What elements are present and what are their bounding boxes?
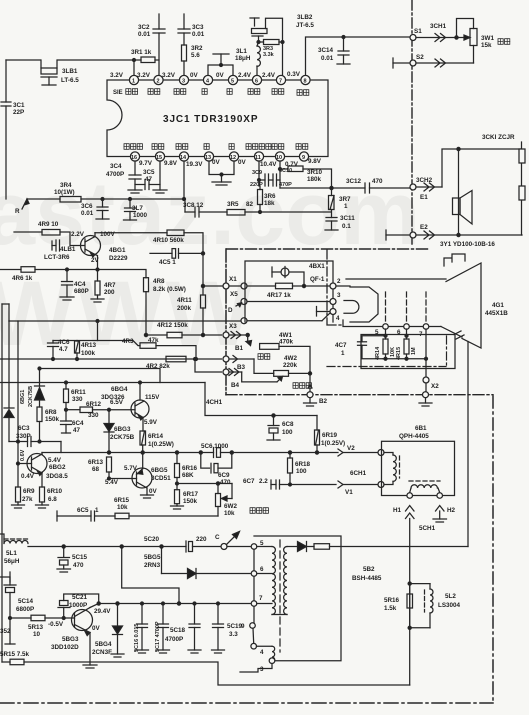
resonator 3LB2 xyxy=(250,14,314,75)
svg-text:LT-6.5: LT-6.5 xyxy=(61,77,79,84)
svg-text:0V: 0V xyxy=(92,625,101,632)
svg-text:0.01: 0.01 xyxy=(81,210,94,217)
svg-text:3.2V: 3.2V xyxy=(162,72,176,79)
connector S2 xyxy=(393,54,474,68)
svg-text:5R13: 5R13 xyxy=(28,624,44,631)
top pin voltage labels xyxy=(110,71,301,79)
svg-text:2CN3F: 2CN3F xyxy=(92,649,112,656)
svg-text:4R2 82k: 4R2 82k xyxy=(146,363,170,370)
svg-text:3C8 12: 3C8 12 xyxy=(183,202,204,209)
svg-text:4R9 10: 4R9 10 xyxy=(38,221,59,228)
node R input arrow xyxy=(15,199,29,215)
connector X2 xyxy=(423,329,439,392)
svg-text:5L1: 5L1 xyxy=(6,550,17,557)
IC pin 15 xyxy=(155,152,164,161)
wiper B4 to 4W2 xyxy=(242,372,283,382)
connector B1 xyxy=(223,345,254,363)
svg-text:10(1W): 10(1W) xyxy=(54,189,75,196)
svg-text:5BG5: 5BG5 xyxy=(144,554,161,561)
capacitor 3C2 xyxy=(138,14,165,75)
svg-text:7: 7 xyxy=(279,79,282,85)
bottom pin voltage labels xyxy=(139,158,322,168)
svg-text:QF-1: QF-1 xyxy=(310,276,325,283)
svg-text:B1: B1 xyxy=(235,345,244,352)
svg-text:BSH-4485: BSH-4485 xyxy=(352,575,382,582)
transformer 5B2 tap 6 xyxy=(251,549,272,576)
svg-text:7: 7 xyxy=(259,595,263,602)
svg-text:5.7V: 5.7V xyxy=(124,465,138,472)
svg-text:5.6: 5.6 xyxy=(191,52,200,59)
resonator 3LB1 xyxy=(41,60,79,85)
diode 5BG4 xyxy=(92,602,124,657)
inductor 5L2 xyxy=(408,584,460,630)
svg-text:68: 68 xyxy=(92,466,100,473)
svg-text:19.3V: 19.3V xyxy=(186,161,203,168)
svg-text:2V: 2V xyxy=(91,257,100,264)
svg-text:6R13: 6R13 xyxy=(88,459,104,466)
svg-text:3C2: 3C2 xyxy=(138,24,150,31)
svg-text:6R19: 6R19 xyxy=(322,432,338,439)
svg-text:18μH: 18μH xyxy=(235,55,251,62)
svg-text:9: 9 xyxy=(302,155,305,161)
IC pin 12 xyxy=(229,152,238,161)
resistor 4R13 xyxy=(75,341,97,361)
connector S1 xyxy=(410,23,456,42)
svg-text:0.7V: 0.7V xyxy=(285,161,299,168)
svg-text:1M: 1M xyxy=(411,347,417,355)
wire L1 bus (to X5) xyxy=(9,318,247,324)
connector E2 xyxy=(386,224,522,240)
resistor 4R3 xyxy=(98,337,198,361)
svg-text:4.7: 4.7 xyxy=(59,346,68,353)
IC pin 1 xyxy=(129,75,138,84)
breaker 4BX1 box xyxy=(245,261,333,322)
resistor 3R7 xyxy=(329,188,352,218)
resistor 4R17 xyxy=(247,278,341,299)
connector B2 ground xyxy=(304,385,328,407)
svg-text:H2: H2 xyxy=(447,507,456,514)
svg-text:LS3004: LS3004 xyxy=(438,602,461,609)
svg-text:0.6V: 0.6V xyxy=(20,449,26,461)
resistor 6R18 xyxy=(288,453,311,487)
svg-text:6BG2: 6BG2 xyxy=(49,464,66,471)
svg-text:6R11: 6R11 xyxy=(71,389,86,396)
svg-text:H1: H1 xyxy=(393,507,402,514)
svg-text:E1: E1 xyxy=(420,194,428,201)
transistor 4BG1 xyxy=(71,231,128,270)
svg-text:3Y1 YD100-10B-16: 3Y1 YD100-10B-16 xyxy=(440,241,495,248)
svg-text:V2: V2 xyxy=(347,445,355,452)
svg-text:1000: 1000 xyxy=(133,212,148,219)
potentiometer 4W1 xyxy=(246,332,310,392)
svg-text:2RN3: 2RN3 xyxy=(144,562,161,569)
svg-text:6800P: 6800P xyxy=(16,606,34,613)
svg-text:D2229: D2229 xyxy=(109,255,128,262)
resistor 4R15 xyxy=(396,329,417,360)
resistor 6R14 xyxy=(140,431,174,453)
svg-text:115V: 115V xyxy=(145,394,160,401)
IC pin 8 xyxy=(301,75,310,84)
svg-text:3CD51: 3CD51 xyxy=(151,475,171,482)
svg-text:2: 2 xyxy=(337,278,341,285)
svg-text:220P: 220P xyxy=(250,182,263,188)
svg-text:4R8: 4R8 xyxy=(153,278,165,285)
capacitor 5C16 xyxy=(134,602,149,653)
svg-text:X1: X1 xyxy=(229,276,237,283)
svg-text:5BG4: 5BG4 xyxy=(95,641,112,648)
capacitor 3C3 xyxy=(178,14,205,45)
ground X2 on divider xyxy=(419,392,432,406)
svg-text:5C14: 5C14 xyxy=(18,598,34,605)
svg-text:E2: E2 xyxy=(420,224,428,231)
svg-text:3L1: 3L1 xyxy=(236,48,247,55)
svg-text:4BX1: 4BX1 xyxy=(309,263,325,270)
capacitor 5C19 xyxy=(212,602,243,653)
svg-text:6C7: 6C7 xyxy=(243,478,255,485)
svg-text:1(0.25V): 1(0.25V) xyxy=(321,440,345,447)
capacitor 5C20 xyxy=(144,536,221,552)
svg-text:9.7V: 9.7V xyxy=(139,160,153,167)
svg-text:10.4V: 10.4V xyxy=(260,161,277,168)
svg-text:5CH1: 5CH1 xyxy=(419,525,436,532)
capacitor 5C18 xyxy=(165,602,201,653)
svg-text:5C21: 5C21 xyxy=(72,594,88,601)
wire horn to 5B2 (right vertical) xyxy=(467,342,469,547)
resistor 4R8 xyxy=(98,270,186,337)
svg-text:3C9: 3C9 xyxy=(252,170,262,176)
svg-text:5L2: 5L2 xyxy=(445,593,456,600)
svg-text:-0.5V: -0.5V xyxy=(48,621,64,628)
svg-text:3C5: 3C5 xyxy=(143,169,155,176)
svg-text:5R15 7.5k: 5R15 7.5k xyxy=(0,651,30,658)
svg-text:0.01: 0.01 xyxy=(321,55,334,62)
svg-text:1.5k: 1.5k xyxy=(384,605,397,612)
svg-text:8.2k (0.5W): 8.2k (0.5W) xyxy=(153,286,186,293)
capacitor 3C11 xyxy=(325,215,355,230)
svg-text:3CH2: 3CH2 xyxy=(416,177,433,184)
capacitor 6C7 xyxy=(243,478,336,489)
capacitor 6C4 xyxy=(61,410,85,434)
svg-text:4R14: 4R14 xyxy=(375,346,381,360)
shield box frame mid xyxy=(205,383,317,416)
svg-text:S2: S2 xyxy=(416,54,424,61)
svg-text:180k: 180k xyxy=(307,176,322,183)
resistor 6R10 xyxy=(36,487,63,508)
svg-text:3R4: 3R4 xyxy=(60,182,72,189)
svg-text:6R8: 6R8 xyxy=(45,409,57,416)
svg-text:10: 10 xyxy=(33,631,41,638)
wire 29.4V bus xyxy=(99,603,251,605)
svg-text:5.9V: 5.9V xyxy=(144,419,158,426)
svg-text:5.4V: 5.4V xyxy=(105,479,119,486)
wire compensation bus xyxy=(280,169,365,190)
transformer 5B2 tap 5 xyxy=(251,540,272,549)
wire V2 bus xyxy=(42,451,338,454)
svg-text:6C5: 6C5 xyxy=(77,507,89,514)
transformer 5B2 secondary winding xyxy=(284,547,287,615)
capacitor 3C12 xyxy=(346,178,410,193)
transformer 5B2 enclosure xyxy=(254,536,382,661)
capacitor 5C14 xyxy=(0,572,34,644)
svg-text:6R12: 6R12 xyxy=(86,401,102,408)
svg-text:4R11: 4R11 xyxy=(177,297,192,304)
svg-text:6R17: 6R17 xyxy=(183,491,199,498)
IC pin 10 xyxy=(275,152,284,161)
svg-text:0V: 0V xyxy=(238,159,247,166)
svg-text:6R14: 6R14 xyxy=(148,433,164,440)
svg-text:5C17 4700P: 5C17 4700P xyxy=(155,621,161,652)
svg-text:1: 1 xyxy=(341,350,345,357)
connector X1 xyxy=(203,276,241,289)
svg-text:3DG8.5: 3DG8.5 xyxy=(46,473,68,480)
transformer 5B2 primary winding xyxy=(272,547,287,615)
svg-text:3W1: 3W1 xyxy=(481,35,494,42)
resistor 4R11 xyxy=(177,253,206,336)
svg-text:1(0.25W): 1(0.25W) xyxy=(148,441,174,448)
svg-text:LCT-3R6: LCT-3R6 xyxy=(44,254,70,261)
svg-text:6R15: 6R15 xyxy=(114,497,130,504)
connector B3 B4 xyxy=(223,364,246,389)
svg-text:R: R xyxy=(15,208,20,215)
IC pin 5 xyxy=(228,75,237,84)
svg-text:3.3: 3.3 xyxy=(229,631,238,638)
svg-text:B3: B3 xyxy=(237,364,246,371)
svg-text:5BG3: 5BG3 xyxy=(62,636,79,643)
resistor 6R15 xyxy=(95,497,218,519)
capacitor 4C6 xyxy=(48,321,98,361)
transformer 5B2 tap 9 xyxy=(241,606,255,630)
svg-text:5C18: 5C18 xyxy=(170,627,186,634)
svg-text:WWW: WWW xyxy=(0,263,255,365)
svg-text:6BG1: 6BG1 xyxy=(20,390,26,404)
IC pin 2 xyxy=(154,75,163,84)
potentiometer 6W2 xyxy=(177,482,268,517)
transistor 5BG3 xyxy=(51,604,111,669)
svg-text:B4: B4 xyxy=(231,382,240,389)
svg-text:4R10 560k: 4R10 560k xyxy=(153,237,184,244)
horn pin 5 xyxy=(375,292,388,336)
svg-text:3LB1: 3LB1 xyxy=(62,68,78,75)
board divider (horizontal under IC section) xyxy=(227,248,431,250)
resistor 4R10 xyxy=(95,230,203,253)
svg-text:4BG1: 4BG1 xyxy=(109,247,126,254)
resistor 3R1 xyxy=(131,49,159,63)
svg-text:3.2V: 3.2V xyxy=(110,72,124,79)
svg-text:3DD102D: 3DD102D xyxy=(51,644,79,651)
svg-text:4R17 1k: 4R17 1k xyxy=(267,292,291,299)
wire 29.4V feed xyxy=(120,545,180,605)
svg-text:V1: V1 xyxy=(345,489,353,496)
svg-text:0V: 0V xyxy=(149,488,158,495)
svg-text:15: 15 xyxy=(156,155,162,161)
resistor 4R2 xyxy=(38,356,222,382)
svg-text:680P: 680P xyxy=(74,288,89,295)
filter 4LB1 xyxy=(44,240,76,261)
top pin function labels xyxy=(113,89,309,96)
svg-text:3C14: 3C14 xyxy=(318,47,334,54)
svg-text:10k: 10k xyxy=(117,504,128,511)
resistor 5R16 xyxy=(384,582,430,612)
svg-text:3R6: 3R6 xyxy=(264,193,276,200)
capacitor 3C7 xyxy=(124,198,148,221)
svg-text:4: 4 xyxy=(336,315,340,322)
svg-text:6R16: 6R16 xyxy=(182,465,198,472)
horn pin 7 xyxy=(419,292,429,338)
svg-text:3CKI ZCJR: 3CKI ZCJR xyxy=(482,134,515,141)
breaker 4BX1 symbol xyxy=(272,267,304,287)
svg-text:6CH1: 6CH1 xyxy=(350,470,367,477)
svg-text:6C4: 6C4 xyxy=(72,420,84,427)
svg-text:47: 47 xyxy=(73,427,81,434)
svg-text:3R10: 3R10 xyxy=(307,169,323,176)
svg-text:2.2V: 2.2V xyxy=(71,231,85,238)
board divider (around relay box) xyxy=(327,336,447,367)
IC pin 6 xyxy=(252,75,261,84)
inductor 3L1 xyxy=(235,46,260,75)
resistor 3R2 xyxy=(182,45,204,75)
svg-text:470: 470 xyxy=(372,178,383,185)
svg-text:470P: 470P xyxy=(279,182,292,188)
capacitor 6C8 xyxy=(267,414,294,440)
svg-text:9.8V: 9.8V xyxy=(308,158,322,165)
svg-text:3C12: 3C12 xyxy=(346,178,362,185)
capacitor 4C5 xyxy=(150,249,205,266)
svg-text:4R13: 4R13 xyxy=(81,342,97,349)
svg-text:3R7: 3R7 xyxy=(339,196,351,203)
resistor 3R3 xyxy=(259,40,283,59)
svg-text:5C6 1000: 5C6 1000 xyxy=(201,443,229,450)
svg-text:5R16: 5R16 xyxy=(384,597,400,604)
svg-text:3C3: 3C3 xyxy=(192,24,204,31)
svg-text:4G1: 4G1 xyxy=(492,302,504,309)
connector X3 xyxy=(223,323,249,339)
svg-text:220k: 220k xyxy=(283,362,298,369)
IC pin 16 xyxy=(130,152,139,161)
capacitor 5C15 xyxy=(57,545,88,572)
svg-text:13: 13 xyxy=(205,155,211,161)
svg-text:D: D xyxy=(228,307,233,314)
resistor 6R11 xyxy=(64,381,87,411)
svg-text:220: 220 xyxy=(196,536,207,543)
board divider (horizontal 4CH1) xyxy=(226,394,493,396)
transistor 6BG4 xyxy=(0,381,205,431)
svg-text:3: 3 xyxy=(182,79,185,85)
svg-text:3C11: 3C11 xyxy=(340,215,355,222)
capacitor 6C9 xyxy=(201,453,232,487)
svg-text:6BG3: 6BG3 xyxy=(114,426,131,433)
resistor 6R12 xyxy=(66,399,131,419)
connector X5 xyxy=(230,283,247,298)
svg-text:29.4V: 29.4V xyxy=(94,608,111,615)
svg-text:3: 3 xyxy=(337,292,341,299)
transformer 6B1 horizontal winding xyxy=(409,481,440,493)
transformer 5B2 tap 4 xyxy=(251,628,272,656)
svg-text:1: 1 xyxy=(95,507,99,514)
IC pin 4 xyxy=(203,75,212,84)
svg-text:3: 3 xyxy=(260,666,264,673)
svg-text:3L7: 3L7 xyxy=(132,205,143,212)
svg-text:3R2: 3R2 xyxy=(191,45,203,52)
svg-text:10k: 10k xyxy=(224,510,235,517)
svg-text:6R9: 6R9 xyxy=(23,488,35,495)
horn 4G1 bell xyxy=(346,254,508,348)
capacitor 6C5 xyxy=(57,507,99,521)
svg-text:47k: 47k xyxy=(148,337,159,344)
svg-text:3JC1 TDR3190XP: 3JC1 TDR3190XP xyxy=(163,114,258,125)
svg-text:0.01: 0.01 xyxy=(138,31,151,38)
capacitor 3C14 xyxy=(318,36,350,65)
IC pin 14 xyxy=(179,152,188,161)
capacitor 3C4 xyxy=(106,161,142,193)
svg-text:12: 12 xyxy=(230,155,236,161)
svg-text:S1: S1 xyxy=(414,28,422,35)
connector H1 xyxy=(393,493,414,685)
svg-text:16: 16 xyxy=(131,155,137,161)
svg-text:6BG5: 6BG5 xyxy=(151,467,168,474)
svg-text:X5: X5 xyxy=(230,291,238,298)
transformer 5B2 tap 7 xyxy=(251,576,272,606)
wire pin1 stub xyxy=(133,60,135,75)
relay box under horn xyxy=(361,335,455,369)
speaker 3Y1 xyxy=(440,149,495,248)
svg-text:330: 330 xyxy=(88,412,99,419)
capacitor 6C3 xyxy=(9,425,61,453)
svg-text:5.4V: 5.4V xyxy=(48,457,62,464)
diode above 6R8 xyxy=(35,369,45,408)
svg-text:C: C xyxy=(215,534,220,541)
capacitor 4C4 xyxy=(60,268,89,300)
resistor 6R16 xyxy=(175,453,198,490)
svg-text:470k: 470k xyxy=(279,339,294,346)
svg-text:SIE: SIE xyxy=(113,90,123,96)
svg-text:3R5: 3R5 xyxy=(227,201,239,208)
transistor 6BG2 xyxy=(17,321,69,487)
connector H2 xyxy=(419,493,456,532)
resistor 6R19 xyxy=(315,416,346,453)
wire L2 bus xyxy=(0,358,222,360)
op-amp/IC 3JC1 TDR3190XP body xyxy=(107,80,328,157)
capacitor 3C9 / 3C10 pair xyxy=(250,161,292,188)
svg-text:6C8: 6C8 xyxy=(282,421,294,428)
svg-text:352: 352 xyxy=(0,628,11,635)
svg-text:9.8V: 9.8V xyxy=(164,160,178,167)
svg-text:3C4: 3C4 xyxy=(110,163,122,170)
svg-text:0.4V: 0.4V xyxy=(21,473,35,480)
board divider (vertical through X connectors) xyxy=(225,249,227,395)
svg-text:4C6: 4C6 xyxy=(58,339,70,346)
wire pins 13-12 ground bracket xyxy=(209,161,234,185)
svg-text:3CH1: 3CH1 xyxy=(430,23,447,30)
inductor 5L1 xyxy=(0,534,186,565)
connector V2 xyxy=(338,445,384,456)
connector E1 xyxy=(410,147,522,201)
svg-text:X2: X2 xyxy=(431,383,439,390)
IC pin 9 xyxy=(299,152,308,161)
capacitor 4C7 xyxy=(335,329,386,359)
wire top input xyxy=(6,59,40,61)
svg-text:3.2V: 3.2V xyxy=(137,72,151,79)
board divider (top right vertical dash-dot) xyxy=(411,0,413,247)
svg-text:1: 1 xyxy=(132,79,135,85)
svg-text:100: 100 xyxy=(296,468,307,475)
svg-text:100V: 100V xyxy=(100,231,116,238)
svg-text:5B2: 5B2 xyxy=(363,566,375,573)
svg-text:330: 330 xyxy=(72,396,83,403)
resistor 3R4 xyxy=(27,182,186,202)
resistor 6R8 xyxy=(37,407,60,443)
resistor 4R12 xyxy=(146,322,222,338)
svg-text:6BG4: 6BG4 xyxy=(111,386,128,393)
